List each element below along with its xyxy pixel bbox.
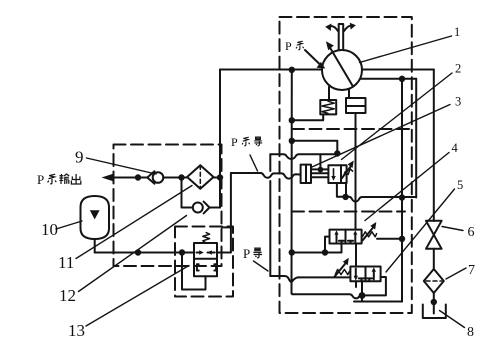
svg-text:9: 9 bbox=[75, 148, 84, 167]
wire: riser from valve13 x=230.9 bbox=[217, 173, 231, 253]
leader 5 bbox=[386, 189, 455, 272]
wire: valve4 to valve5 bbox=[355, 244, 357, 267]
pump U1 circle bbox=[322, 50, 362, 90]
svg-text:1: 1 bbox=[454, 25, 460, 39]
shaft rotation arrows bbox=[325, 23, 356, 31]
wire: pump suction line y=69.5 bbox=[220, 69, 322, 71]
leader P系导 bbox=[250, 155, 258, 171]
leader 6 bbox=[442, 227, 463, 231]
node at (220,177.5) bbox=[217, 174, 223, 180]
text P系导 bbox=[231, 135, 262, 149]
svg-text:13: 13 bbox=[68, 321, 85, 340]
leader 13 bbox=[86, 266, 189, 327]
leader 7 bbox=[446, 268, 466, 279]
tank 8 bbox=[423, 305, 446, 319]
pump drive shaft bbox=[339, 24, 344, 50]
svg-text:P: P bbox=[285, 39, 292, 53]
bypass check valve 12 bbox=[182, 178, 221, 214]
text P系输出 bbox=[37, 172, 81, 187]
node at (138,177.5) bbox=[135, 174, 141, 180]
node at (181.5,177.5) bbox=[178, 174, 184, 180]
node at (291.8,252.5) bbox=[289, 249, 295, 255]
text P导 bbox=[243, 246, 262, 261]
wire: valve5 right pilot loop bbox=[364, 277, 386, 295]
node at (291.8,69.8) bbox=[289, 67, 295, 73]
svg-text:P: P bbox=[243, 246, 250, 261]
compensator valve (item 2) bbox=[328, 165, 346, 183]
wire: valve5 bottom port bbox=[356, 281, 362, 295]
main unit dashed enclosure bbox=[280, 17, 412, 313]
dashed pilot line y=211.5 bbox=[292, 211, 405, 213]
leader 12 bbox=[79, 216, 187, 292]
valve 13 bbox=[194, 233, 217, 277]
filter 11 bbox=[187, 165, 213, 189]
servo rod lines bbox=[311, 169, 328, 177]
wire: compensator upper pilot y=140.8 bbox=[292, 141, 338, 154]
wire: valve4 spring side to x402 bbox=[377, 238, 402, 240]
pump variable displacement arrow bbox=[326, 41, 353, 86]
svg-text:10: 10 bbox=[41, 220, 58, 239]
servo cylinder (item 3) bbox=[301, 165, 311, 183]
node at (291.8,140.8) bbox=[289, 138, 295, 144]
svg-text:8: 8 bbox=[467, 325, 474, 340]
wire: filter7 to tank bbox=[433, 293, 435, 314]
compensator adjuster spring bbox=[342, 161, 354, 179]
svg-text:7: 7 bbox=[468, 263, 475, 278]
leader 1 bbox=[360, 36, 452, 63]
valve 5 adjustable spring bbox=[335, 258, 350, 277]
dashed pilot line y=129 bbox=[292, 128, 412, 130]
wire: damper drain vertical x=355.5 bbox=[355, 113, 357, 230]
wire: supply line y=252.5 bbox=[95, 252, 194, 254]
wire: spring box drain L to wire bbox=[292, 114, 323, 120]
valve 13 dashed enclosure bbox=[175, 227, 233, 297]
svg-text:P: P bbox=[231, 135, 238, 149]
wire: pump case drain y=78.8 bbox=[361, 78, 417, 80]
filter 7 bbox=[424, 269, 444, 293]
wire: valve4 left pilot bbox=[325, 237, 330, 253]
accumulator 10 bbox=[81, 196, 110, 253]
wire: main internal vertical x=291.5 bbox=[292, 70, 294, 294]
P系 label arrow (leader to pump) bbox=[305, 50, 325, 69]
node at (362,295.5) bbox=[359, 292, 366, 299]
channel bottom funnel bbox=[270, 276, 291, 282]
svg-text:P: P bbox=[37, 172, 44, 187]
wire: bottom return y=301.5 bbox=[354, 301, 402, 303]
wire: compensator top line y=154.2 with hop bbox=[270, 154, 337, 159]
svg-text:11: 11 bbox=[58, 253, 74, 272]
node at (320.4,169.6) bbox=[318, 167, 324, 173]
wire: bottom line from channel y=294.2 with jog bbox=[293, 294, 359, 298]
leader 4 bbox=[365, 153, 449, 221]
wire: compensator drains to LS line bbox=[337, 183, 342, 197]
wire: P-pilot line y=173 with two hops bbox=[231, 173, 301, 179]
node at (325,252.5) bbox=[322, 249, 328, 255]
node at (402,78.8) bbox=[399, 76, 405, 82]
valve 4 (2-pos) bbox=[330, 230, 362, 244]
svg-text:5: 5 bbox=[457, 178, 463, 192]
wire: tank column vertical x=433.8 bbox=[433, 70, 435, 222]
wire: channel to valve5 input y=277.4 bbox=[298, 276, 350, 278]
leader 10 bbox=[56, 221, 82, 229]
leader 3 bbox=[312, 105, 450, 168]
node at (402,238.8) bbox=[399, 236, 405, 242]
shutoff valve 6 bbox=[426, 221, 442, 249]
svg-text:12: 12 bbox=[59, 286, 76, 305]
left block dashed enclosure bbox=[114, 145, 222, 267]
check valve 9 bbox=[147, 171, 163, 183]
leader 2 bbox=[342, 73, 453, 160]
leader 11 bbox=[76, 186, 192, 259]
wire: stub at riser top corner bbox=[222, 226, 231, 228]
svg-text:2: 2 bbox=[455, 62, 461, 76]
wire: pump outlet right y=69.5 to tank column bbox=[362, 69, 434, 71]
node at (337.3,153.5) bbox=[334, 150, 340, 156]
wire: y=252.5 branch bbox=[292, 244, 342, 253]
svg-text:4: 4 bbox=[452, 141, 459, 155]
wire: valve13 bottom U loop bbox=[182, 253, 206, 290]
node at (345.6,196.9) bbox=[342, 194, 348, 200]
svg-text:3: 3 bbox=[455, 95, 461, 109]
servo piston small box (item 2 pointer) bbox=[346, 89, 366, 113]
text P系 (pump) bbox=[285, 39, 304, 53]
wire: pilot tap down to rod bbox=[319, 154, 321, 169]
wire: LS line y=197 with hop bbox=[342, 197, 416, 202]
node at (138,252.5) bbox=[135, 249, 141, 255]
node at (433.8,302) bbox=[431, 299, 437, 305]
node at (182,252.5) bbox=[179, 249, 185, 255]
wire: suction down-left vertical x=220 bbox=[219, 70, 221, 208]
leader 8 bbox=[440, 311, 465, 328]
wire: node stub to return bbox=[361, 296, 363, 302]
leader 9 bbox=[87, 158, 157, 174]
node at (291.8,120.3) bbox=[289, 117, 295, 123]
wire: valve6 to filter7 bbox=[433, 249, 435, 269]
wire: vertical x=402 bbox=[401, 79, 403, 302]
valve 5 (2-pos) bbox=[350, 267, 380, 282]
leader P导 bbox=[254, 261, 269, 271]
output line with arrow (P系输出) bbox=[102, 174, 148, 182]
wire: main filter line y=177.5 bbox=[163, 177, 220, 179]
node at (402,197.5) bbox=[399, 194, 405, 200]
valve 4 adjustable spring bbox=[363, 222, 377, 241]
wire: vertical x=416.2 bbox=[415, 79, 417, 198]
svg-text:6: 6 bbox=[468, 225, 475, 240]
channel wall x=270.3 bbox=[269, 154, 271, 276]
spring box under pump bbox=[320, 87, 336, 115]
